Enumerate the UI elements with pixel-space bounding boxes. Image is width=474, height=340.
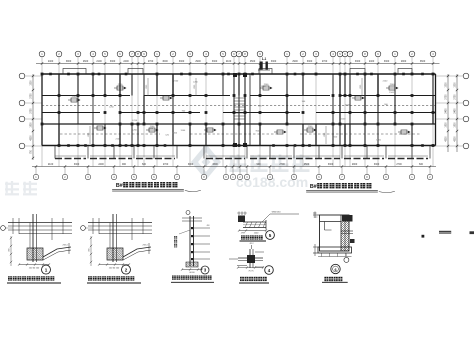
svg-text:100 60 100: 100 60 100 [109, 268, 120, 270]
svg-text:3300: 3300 [307, 60, 313, 63]
svg-text:2700: 2700 [148, 60, 154, 63]
svg-text:2750: 2750 [31, 108, 33, 114]
svg-text:B#: B# [116, 183, 123, 189]
svg-text:600: 600 [142, 163, 147, 166]
svg-text:3300: 3300 [374, 163, 380, 166]
svg-text:60 60: 60 60 [189, 272, 195, 274]
svg-text:1800: 1800 [446, 122, 448, 128]
svg-text:3300: 3300 [271, 60, 277, 63]
svg-text:2400: 2400 [123, 60, 129, 63]
svg-text:2700: 2700 [279, 163, 285, 166]
svg-text:3300: 3300 [110, 60, 116, 63]
svg-text:1: 1 [45, 267, 48, 272]
svg-text:1800: 1800 [455, 122, 457, 128]
svg-text:1500: 1500 [446, 82, 448, 88]
svg-text:4200: 4200 [455, 136, 457, 142]
svg-text:B#: B# [310, 184, 317, 190]
svg-text:5: 5 [269, 233, 272, 238]
svg-text:2900: 2900 [352, 163, 358, 166]
svg-text:3300: 3300 [355, 60, 361, 63]
svg-text:100 60 100: 100 60 100 [29, 268, 40, 270]
svg-text:2100: 2100 [226, 60, 232, 63]
svg-text:1-1: 1-1 [262, 57, 267, 61]
svg-text:2: 2 [125, 267, 128, 272]
svg-text:1500: 1500 [455, 82, 457, 88]
svg-text:600: 600 [419, 163, 424, 166]
svg-text:3300: 3300 [212, 60, 218, 63]
svg-text:2450: 2450 [455, 108, 457, 114]
svg-text:3000: 3000 [188, 163, 194, 166]
svg-text:2900: 2900 [292, 60, 298, 63]
svg-text:2100: 2100 [96, 60, 102, 63]
svg-text:2600: 2600 [83, 60, 89, 63]
svg-text:J*M*: J*M* [241, 233, 246, 235]
svg-text:2900: 2900 [401, 60, 407, 63]
svg-text:2750: 2750 [31, 93, 33, 99]
svg-text:2100: 2100 [48, 163, 54, 166]
svg-text:2700: 2700 [163, 163, 169, 166]
svg-text:75 75: 75 75 [248, 271, 254, 273]
svg-text:2400: 2400 [369, 60, 375, 63]
svg-text:3300: 3300 [179, 60, 185, 63]
svg-text:2700: 2700 [396, 163, 402, 166]
svg-text:3900: 3900 [66, 60, 72, 63]
svg-text:1800: 1800 [31, 122, 33, 128]
svg-text:3300: 3300 [212, 163, 218, 166]
svg-text:4200: 4200 [446, 136, 448, 142]
svg-text:3300: 3300 [328, 163, 334, 166]
svg-text:2900: 2900 [195, 60, 201, 63]
svg-text:3000: 3000 [162, 60, 168, 63]
svg-text:3300: 3300 [384, 60, 390, 63]
svg-text:2750: 2750 [455, 94, 457, 100]
svg-text:3600: 3600 [420, 60, 426, 63]
svg-text:900: 900 [257, 163, 262, 166]
svg-text:4500: 4500 [250, 60, 256, 63]
svg-text:4200: 4200 [31, 135, 33, 141]
svg-text:2450: 2450 [446, 108, 448, 114]
svg-text:2400: 2400 [48, 60, 54, 63]
svg-text:2700: 2700 [322, 60, 328, 63]
svg-text:Φ8@150: Φ8@150 [272, 211, 282, 214]
svg-text:1500: 1500 [31, 80, 33, 86]
svg-text:6: 6 [334, 268, 336, 272]
svg-text:900: 900 [122, 163, 127, 166]
svg-text:3300: 3300 [74, 163, 80, 166]
svg-text:2750: 2750 [446, 94, 448, 100]
svg-text:4500: 4500 [304, 163, 310, 166]
svg-text:2400: 2400 [98, 163, 104, 166]
